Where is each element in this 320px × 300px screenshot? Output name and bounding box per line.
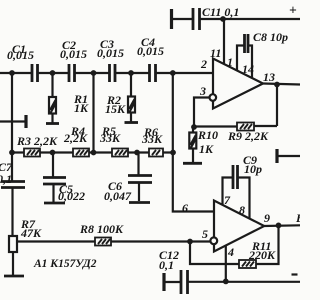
node C1/C2/R1 junction: [50, 70, 56, 76]
resistor R1: [51, 73, 53, 97]
node R3 left junction: [9, 150, 15, 156]
svg-text:11: 11: [210, 46, 221, 60]
svg-text:R3 2,2K: R3 2,2K: [16, 134, 58, 148]
capacitor C4: [148, 64, 151, 82]
svg-text:220K: 220K: [248, 248, 276, 262]
svg-text:33K: 33K: [141, 132, 163, 146]
ground: [183, 162, 202, 165]
wire left vertical: [11, 73, 13, 181]
svg-text:15K: 15K: [105, 102, 126, 116]
wire pin 11: [223, 19, 225, 64]
capacitor C9: [223, 178, 234, 205]
svg-text:R10: R10: [197, 128, 218, 142]
resistor R4: [73, 149, 89, 157]
capacitor C8: [243, 34, 246, 53]
svg-text:0,015: 0,015: [60, 47, 87, 61]
svg-text:5: 5: [202, 227, 208, 241]
capacitor C2: [68, 64, 71, 82]
capacitor C3: [108, 64, 111, 82]
svg-text:2: 2: [200, 57, 207, 71]
svg-text:6: 6: [182, 201, 188, 215]
svg-text:8: 8: [239, 203, 245, 217]
svg-text:R8 100K: R8 100K: [79, 222, 124, 236]
resistor R8: [95, 238, 111, 246]
wire to pin 2: [156, 72, 214, 74]
capacitor C12: [180, 270, 183, 294]
node R9/R10/pin3 junction: [191, 124, 197, 130]
ground: [4, 275, 24, 278]
ground: [46, 122, 59, 125]
wire: [200, 18, 301, 20]
op-amp U1.2: [214, 201, 264, 252]
pin 3 bubble: [210, 94, 217, 101]
wire: [75, 72, 110, 74]
svg-text:47K: 47K: [20, 226, 42, 240]
wire feedback 2: [190, 242, 239, 265]
pin 5 bubble: [210, 237, 217, 244]
node R6 right junction: [170, 150, 176, 156]
svg-text:1K: 1K: [74, 101, 89, 115]
resistor R7: [9, 236, 17, 252]
node output pin 9 junction: [276, 223, 282, 229]
svg-text:C8 10p: C8 10p: [253, 30, 288, 44]
ground: [125, 121, 139, 124]
resistor R9: [194, 125, 237, 127]
capacitor C6: [137, 153, 139, 176]
svg-text:2,2K: 2,2K: [63, 131, 88, 145]
svg-text:0,015: 0,015: [97, 46, 124, 60]
capacitor C1: [31, 64, 34, 82]
svg-text:4: 4: [227, 245, 234, 259]
terminal + supply top: [170, 9, 173, 29]
op-amp U1.1: [213, 59, 263, 109]
wire pin5 / R8 line: [16, 240, 210, 242]
pin 1 wire: [237, 46, 245, 71]
svg-text:R9 2,2K: R9 2,2K: [227, 129, 269, 143]
svg-text:Б: Б: [295, 211, 300, 225]
svg-text:0,047: 0,047: [104, 189, 132, 203]
capacitor C11: [192, 8, 195, 30]
resistor R10: [192, 127, 194, 133]
svg-text:1: 1: [227, 55, 233, 69]
svg-text:7: 7: [224, 193, 231, 207]
svg-text:13: 13: [263, 70, 275, 84]
resistor R2: [130, 73, 132, 97]
svg-text:14: 14: [242, 62, 254, 76]
wire pin 3: [194, 98, 210, 128]
wire: [11, 188, 13, 237]
wire feedback up: [276, 85, 278, 127]
svg-text:0,015: 0,015: [137, 44, 164, 58]
node C1/C7 junction: [9, 70, 15, 76]
wire: [115, 72, 150, 74]
resistor R6: [149, 149, 163, 157]
pin 14 wire: [248, 46, 252, 79]
node pin11 junction: [220, 16, 226, 22]
capacitor C5: [52, 153, 54, 178]
node C4/pin2 junction: [170, 70, 176, 76]
wire vertical between lines: [92, 73, 94, 153]
svg-text:3: 3: [199, 84, 206, 98]
svg-text:9: 9: [264, 211, 270, 225]
svg-text:0,015: 0,015: [7, 48, 34, 62]
node R3/R4/C5 junction: [50, 150, 56, 156]
wire bottom rail: [188, 281, 301, 283]
ground: [129, 201, 150, 204]
wire output 2: [264, 224, 300, 227]
wire pin 4: [225, 246, 227, 282]
svg-text:0,1: 0,1: [159, 258, 174, 272]
node pin5/R11 feedback junction: [187, 239, 193, 245]
wire vertical from C4 node to pin 6: [173, 73, 214, 212]
svg-text:+: +: [289, 3, 297, 18]
node C3/C4/R2 junction: [128, 70, 134, 76]
svg-text:0,022: 0,022: [58, 189, 85, 203]
svg-text:0,1: 0,1: [0, 172, 12, 186]
terminal bottom left: [162, 273, 165, 291]
wire: [172, 18, 194, 20]
node R5/R6/C6 junction: [134, 150, 140, 156]
node R4/R5 junction: [91, 150, 97, 156]
node C2/C3 junction: [91, 70, 97, 76]
wire lower line: [12, 151, 173, 153]
terminal right middle: [275, 149, 278, 163]
wire output 1: [263, 84, 300, 85]
resistor R3: [24, 149, 40, 157]
node pin4 on minus rail: [223, 279, 229, 285]
input terminal: [0, 120, 25, 122]
svg-text:А1 К157УД2: А1 К157УД2: [33, 258, 97, 270]
minus sign: [292, 273, 298, 275]
node output pin 13 junction: [274, 82, 280, 88]
resistor R11: [239, 260, 256, 268]
capacitor C7: [1, 180, 25, 183]
svg-text:33K: 33K: [99, 131, 121, 145]
wire: [38, 72, 70, 74]
svg-text:1K: 1K: [199, 142, 214, 156]
resistor R5: [112, 149, 128, 157]
svg-text:C11 0,1: C11 0,1: [202, 5, 239, 19]
svg-text:10p: 10p: [244, 162, 262, 176]
ground: [44, 202, 65, 205]
wire main line: [0, 72, 32, 74]
